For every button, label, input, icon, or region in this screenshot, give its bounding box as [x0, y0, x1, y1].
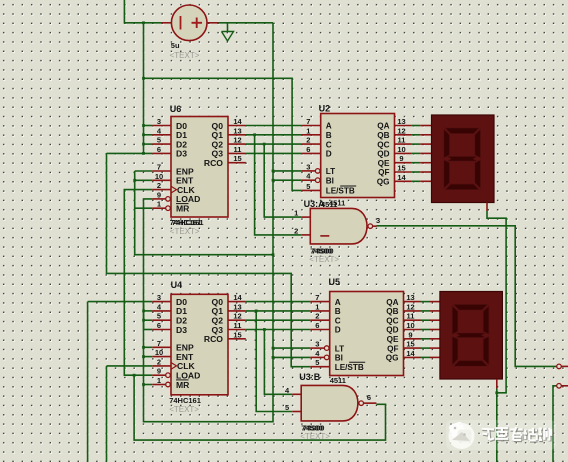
svg-text:7: 7: [315, 293, 319, 302]
svg-text:3: 3: [376, 216, 380, 225]
svg-text:11: 11: [234, 145, 242, 154]
svg-text:15: 15: [233, 154, 241, 163]
svg-text:13: 13: [233, 302, 241, 311]
svg-text:U3:B: U3:B: [299, 372, 321, 382]
svg-text:1: 1: [315, 302, 319, 311]
svg-text:9: 9: [399, 154, 403, 163]
svg-text:C: C: [326, 140, 332, 149]
svg-text:7: 7: [157, 339, 161, 348]
svg-text:11: 11: [234, 321, 242, 330]
svg-text:B: B: [326, 131, 332, 140]
svg-text:3: 3: [306, 162, 310, 171]
svg-text:6: 6: [367, 393, 371, 402]
svg-text:2: 2: [306, 136, 310, 145]
svg-text:1: 1: [157, 376, 161, 385]
svg-text:QF: QF: [378, 168, 389, 177]
svg-text:QG: QG: [386, 354, 399, 363]
svg-text:3: 3: [315, 340, 319, 349]
svg-text:14: 14: [233, 117, 242, 126]
svg-text:11: 11: [407, 312, 415, 321]
svg-text:5u: 5u: [171, 41, 180, 50]
svg-text:U5: U5: [329, 277, 341, 287]
svg-text:QA: QA: [386, 298, 398, 307]
svg-text:10: 10: [155, 172, 163, 181]
svg-text:9: 9: [408, 330, 412, 339]
svg-text:9: 9: [157, 190, 161, 199]
svg-text:14: 14: [233, 293, 242, 302]
svg-text:6: 6: [306, 145, 310, 154]
svg-text:9: 9: [157, 367, 161, 376]
svg-text:D: D: [335, 326, 341, 335]
svg-text:U4: U4: [171, 280, 183, 290]
svg-text:2: 2: [157, 181, 161, 190]
svg-text:C: C: [335, 316, 341, 325]
svg-text:QA: QA: [377, 122, 389, 131]
svg-text:7: 7: [306, 117, 310, 126]
svg-text:<TEXT>: <TEXT>: [170, 227, 200, 236]
svg-text:6: 6: [315, 321, 319, 330]
svg-text:13: 13: [406, 293, 414, 302]
svg-text:<TEXT>: <TEXT>: [170, 51, 200, 60]
svg-text:LE/STB: LE/STB: [326, 187, 355, 196]
svg-text:2: 2: [315, 312, 319, 321]
svg-text:5: 5: [306, 182, 310, 191]
svg-text:10: 10: [155, 348, 163, 357]
svg-text:1: 1: [294, 209, 298, 218]
svg-text:QE: QE: [387, 335, 399, 344]
svg-text:4511: 4511: [321, 200, 337, 209]
svg-text:12: 12: [397, 126, 405, 135]
svg-text:QC: QC: [377, 140, 389, 149]
svg-text:<TEXT>: <TEXT>: [309, 255, 339, 264]
svg-text:7: 7: [157, 163, 161, 172]
svg-text:14: 14: [406, 349, 415, 358]
svg-text:14: 14: [397, 173, 406, 182]
svg-text:QE: QE: [378, 159, 390, 168]
svg-text:LE/STB: LE/STB: [335, 363, 364, 372]
svg-text:1: 1: [306, 126, 310, 135]
svg-text:D3: D3: [176, 325, 187, 335]
svg-text:5: 5: [315, 358, 319, 367]
svg-text:5: 5: [157, 136, 161, 145]
svg-text:10: 10: [406, 321, 414, 330]
svg-text:13: 13: [397, 117, 405, 126]
svg-text:2: 2: [294, 226, 298, 235]
svg-text:LT: LT: [335, 344, 344, 353]
svg-text:6: 6: [157, 145, 161, 154]
svg-text:3: 3: [157, 293, 161, 302]
svg-text:QD: QD: [377, 150, 389, 159]
svg-text:U6: U6: [170, 104, 182, 114]
svg-text:4511: 4511: [330, 376, 346, 385]
svg-text:A: A: [335, 298, 341, 307]
svg-text:U2: U2: [319, 104, 331, 114]
svg-text:BI: BI: [326, 176, 334, 185]
svg-text:2: 2: [157, 357, 161, 366]
svg-text:74HC161: 74HC161: [172, 218, 204, 227]
svg-text:13: 13: [233, 126, 241, 135]
svg-text:RCO: RCO: [204, 334, 223, 344]
svg-text:3: 3: [157, 117, 161, 126]
svg-text:11: 11: [398, 136, 406, 145]
svg-text:QB: QB: [386, 307, 398, 316]
svg-text:QG: QG: [377, 178, 390, 187]
svg-text:<TEXT>: <TEXT>: [169, 405, 199, 414]
svg-text:15: 15: [233, 330, 241, 339]
svg-text:5: 5: [157, 312, 161, 321]
svg-text:LT: LT: [326, 167, 335, 176]
svg-text:RCO: RCO: [204, 158, 223, 168]
svg-text:BI: BI: [335, 354, 343, 363]
svg-text:QC: QC: [386, 316, 398, 325]
svg-text:15: 15: [397, 164, 405, 173]
svg-text:MR: MR: [176, 204, 190, 214]
svg-text:12: 12: [233, 136, 241, 145]
svg-text:D3: D3: [176, 149, 187, 159]
svg-text:12: 12: [406, 302, 414, 311]
svg-text:1: 1: [157, 200, 161, 209]
svg-text:12: 12: [233, 312, 241, 321]
svg-text:5: 5: [285, 403, 289, 412]
svg-text:10: 10: [397, 145, 405, 154]
svg-text:6: 6: [157, 321, 161, 330]
svg-text:QD: QD: [386, 326, 398, 335]
svg-text:<TEXT>: <TEXT>: [300, 432, 330, 441]
svg-text:A: A: [326, 122, 332, 131]
svg-text:QB: QB: [377, 131, 389, 140]
svg-text:74HC161: 74HC161: [169, 396, 201, 405]
svg-text:15: 15: [406, 340, 414, 349]
svg-text:QF: QF: [387, 344, 398, 353]
svg-text:B: B: [335, 307, 341, 316]
svg-text:D: D: [326, 150, 332, 159]
svg-text:MR: MR: [176, 380, 190, 390]
